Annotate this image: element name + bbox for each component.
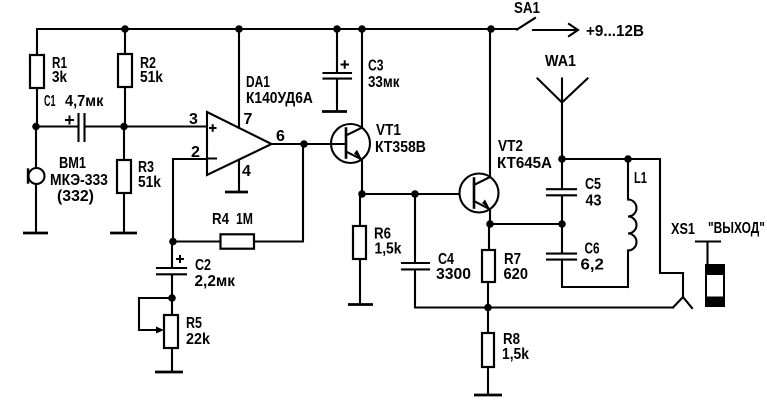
svg-text:6: 6 xyxy=(276,128,285,145)
svg-text:2,2мк: 2,2мк xyxy=(195,273,236,290)
svg-text:VT1: VT1 xyxy=(376,122,401,139)
svg-text:DA1: DA1 xyxy=(246,72,270,90)
svg-text:C6: C6 xyxy=(585,239,600,257)
svg-text:L1: L1 xyxy=(634,169,647,186)
svg-text:3300: 3300 xyxy=(436,266,471,283)
svg-text:1M: 1M xyxy=(236,211,253,229)
svg-text:22k: 22k xyxy=(186,330,210,348)
svg-text:3: 3 xyxy=(189,111,198,128)
svg-text:XS1: XS1 xyxy=(671,221,695,239)
svg-text:КТ358В: КТ358В xyxy=(375,138,426,156)
svg-text:6,2: 6,2 xyxy=(581,256,604,274)
svg-text:R4: R4 xyxy=(212,211,230,228)
svg-text:C1: C1 xyxy=(44,91,55,109)
svg-text:"ВЫХОД": "ВЫХОД" xyxy=(708,218,765,236)
svg-text:1,5k: 1,5k xyxy=(375,240,403,258)
svg-text:33мк: 33мк xyxy=(368,74,400,91)
svg-text:КТ645А: КТ645А xyxy=(497,155,552,172)
svg-text:SA1: SA1 xyxy=(514,0,540,17)
svg-text:51k: 51k xyxy=(138,173,162,191)
svg-text:4: 4 xyxy=(242,163,251,180)
svg-text:К140УД6А: К140УД6А xyxy=(246,89,313,107)
svg-text:МКЭ-333: МКЭ-333 xyxy=(50,171,108,189)
svg-text:+9...12В: +9...12В xyxy=(586,23,644,40)
svg-text:C3: C3 xyxy=(368,57,384,75)
svg-text:620: 620 xyxy=(504,265,528,283)
svg-text:(332): (332) xyxy=(57,188,94,205)
svg-text:3k: 3k xyxy=(52,69,68,86)
svg-text:43: 43 xyxy=(586,192,602,210)
svg-text:2: 2 xyxy=(191,144,200,161)
svg-text:51k: 51k xyxy=(140,68,164,86)
svg-text:7: 7 xyxy=(244,111,253,128)
svg-text:WA1: WA1 xyxy=(545,52,576,70)
svg-text:ВМ1: ВМ1 xyxy=(59,155,86,173)
svg-text:1,5k: 1,5k xyxy=(502,345,530,363)
svg-text:VT2: VT2 xyxy=(498,138,523,155)
svg-text:4,7мк: 4,7мк xyxy=(65,92,104,110)
svg-text:C5: C5 xyxy=(585,176,601,194)
